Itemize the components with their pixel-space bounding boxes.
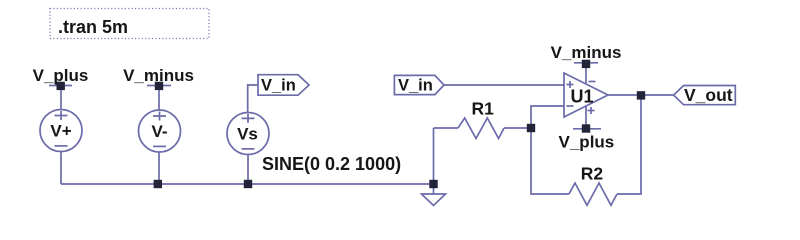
svg-text:V+: V+ [50,122,71,141]
V2 minus sign [153,145,166,147]
wire op-amp output [608,94,641,96]
V3 minus sign [242,148,255,150]
svg-text:V_minus: V_minus [123,66,194,85]
flag tick V_minus opamp [574,62,598,64]
svg-text:V_minus: V_minus [551,43,622,62]
node square V_minus flag [155,82,163,90]
svg-text:U1: U1 [570,87,593,107]
wire R1 right [504,127,531,129]
node square rail at Vs [244,180,252,188]
wire V- top [158,86,160,110]
spice directive box .tran [50,9,209,39]
ground symbol [422,194,446,206]
svg-text:V_out: V_out [684,85,733,105]
svg-text:V_in: V_in [261,77,296,95]
op-amp top supply minus sign [589,81,596,83]
resistor R2 body [569,183,617,205]
op-amp top supply pin [585,65,587,85]
wire R2 right feedback [617,95,641,194]
wire V- bottom [158,152,160,184]
flag tick V_minus source [147,85,171,87]
svg-text:Vs: Vs [237,125,258,144]
op-amp noninverting plus sign [567,81,574,88]
svg-text:V_plus: V_plus [33,66,89,85]
wire Vs bottom [247,155,249,185]
flag tick V_plus source [49,85,72,87]
svg-text:SINE(0 0.2 1000): SINE(0 0.2 1000) [262,154,401,174]
wire Vs to flag V_in [248,85,258,113]
node square output junction [637,91,645,99]
wire ground riser to R1 [433,128,435,184]
wire V+ bottom [60,152,62,185]
wire R1 left [434,127,459,129]
op-amp bottom supply plus sign [588,107,595,114]
op-amp inverting minus sign [567,105,574,107]
resistor R1 body [458,118,504,139]
voltage source V2 circle [139,110,181,152]
wire junction to inverting input [531,106,564,128]
wire V+ top [60,86,62,110]
flag tick V_plus opamp [573,128,601,130]
wire junction down to R2 [531,128,569,194]
wire V_in to op-amp noninverting input [444,84,564,86]
svg-text:R1: R1 [472,98,495,118]
op-amp bottom supply pin [585,106,587,129]
wire ground rail [61,183,434,185]
svg-text:V-: V- [151,122,167,141]
node square V_plus flag [57,82,65,90]
flag V_out outline [674,86,736,105]
node square V_plus opamp pin [582,124,590,132]
wire output to flag V_out [641,94,674,96]
node square ground junction [429,180,437,188]
flag V_in right outline [394,75,444,94]
node square rail at V- [154,180,162,188]
V1 plus sign [55,111,68,120]
svg-text:V_plus: V_plus [559,133,615,152]
op-amp U1 triangle [564,73,608,117]
flag V_in left outline [258,75,309,96]
svg-text:V_in: V_in [398,76,433,94]
node square R1 R2 inverting junction [527,124,535,132]
voltage source V3 circle [227,113,269,155]
svg-text:R2: R2 [581,164,604,184]
svg-text:.tran 5m: .tran 5m [58,17,128,37]
V1 minus sign [55,145,68,147]
V2 plus sign [153,112,166,121]
node square V_minus opamp pin [582,60,590,68]
voltage source V1 circle [40,110,82,152]
ground stem [433,184,435,194]
V3 plus sign [242,114,255,123]
